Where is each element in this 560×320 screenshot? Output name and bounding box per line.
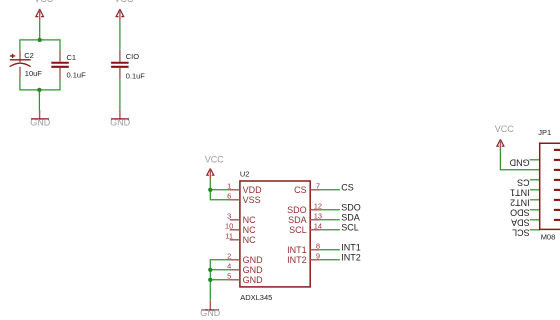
pin 7 CS <box>294 181 320 195</box>
svg-text:SCL: SCL <box>289 225 307 235</box>
wire CIO to ground <box>119 79 121 110</box>
junction VDD <box>208 188 212 192</box>
wire net INT2 <box>319 253 360 263</box>
junction GND pin4 <box>208 268 212 272</box>
pin 3 NC <box>227 211 256 225</box>
svg-text:CS: CS <box>517 178 530 188</box>
svg-text:2: 2 <box>227 251 231 260</box>
power VCC supply 1 (top-left) <box>34 0 54 20</box>
pin 14 SCL <box>289 221 322 235</box>
wire to ground <box>38 90 40 110</box>
power VCC supply 2 (CIO) <box>114 0 134 20</box>
capacitor CIO 0.1uF <box>111 50 145 81</box>
svg-text:INT2: INT2 <box>341 253 361 263</box>
wire net CS <box>319 183 353 193</box>
svg-text:INT2: INT2 <box>510 198 530 208</box>
pin 11 NC <box>225 231 256 245</box>
svg-text:GND: GND <box>243 265 264 275</box>
svg-text:CS: CS <box>341 183 354 193</box>
svg-text:14: 14 <box>314 221 322 230</box>
wire net SDA to JP1 <box>511 218 540 228</box>
ground GND 3 (U2) <box>200 300 221 318</box>
wire VCC to JP1 <box>500 150 539 170</box>
pin 1 VDD <box>227 181 262 195</box>
svg-text:13: 13 <box>314 211 322 220</box>
svg-text:SDO: SDO <box>341 203 361 213</box>
svg-text:3: 3 <box>227 211 231 220</box>
wire net SCL to JP1 <box>512 228 540 238</box>
junction bottom rail <box>37 88 41 92</box>
IC U2 ADXL345 body <box>240 170 310 303</box>
svg-text:ADXL345: ADXL345 <box>240 293 272 302</box>
svg-text:SCL: SCL <box>341 223 359 233</box>
ground GND 2 (CIO) <box>110 110 131 128</box>
pin 8 INT1 <box>287 241 320 255</box>
svg-text:SCL: SCL <box>512 228 530 238</box>
svg-text:VSS: VSS <box>243 195 261 205</box>
svg-text:GND: GND <box>243 275 264 285</box>
svg-text:12: 12 <box>314 201 322 210</box>
svg-text:CIO: CIO <box>126 52 140 61</box>
wire net INT1 to JP1 <box>510 188 540 198</box>
pin 13 SDA <box>288 211 322 225</box>
ground GND 1 <box>30 110 51 128</box>
svg-text:SDO: SDO <box>287 205 307 215</box>
svg-text:NC: NC <box>243 215 256 225</box>
svg-text:VCC: VCC <box>114 0 134 4</box>
svg-text:VDD: VDD <box>243 185 263 195</box>
svg-text:INT1: INT1 <box>341 243 361 253</box>
svg-text:4: 4 <box>227 261 231 270</box>
svg-text:SDA: SDA <box>288 215 307 225</box>
svg-text:10uF: 10uF <box>25 69 43 78</box>
svg-text:C2: C2 <box>24 51 34 60</box>
power VCC supply 3 (U2) <box>205 155 225 180</box>
svg-text:VCC: VCC <box>495 124 515 134</box>
junction top rail <box>38 38 42 42</box>
junction GND pin5 <box>208 278 212 282</box>
wire net SCL <box>319 223 358 233</box>
svg-text:SDO: SDO <box>510 208 530 218</box>
wire GND bus of U2 <box>210 260 230 301</box>
svg-text:0.1uF: 0.1uF <box>67 71 87 80</box>
wire net CS to JP1 <box>517 178 540 188</box>
svg-text:GND: GND <box>509 158 530 168</box>
pin 12 SDO <box>287 201 322 215</box>
wire net INT2 to JP1 <box>510 198 540 208</box>
svg-text:10: 10 <box>225 221 233 230</box>
power VCC supply 4 (JP1) <box>495 124 515 150</box>
svg-text:1: 1 <box>227 181 231 190</box>
wire net SDO to JP1 <box>510 208 540 218</box>
svg-text:INT1: INT1 <box>510 188 530 198</box>
svg-text:7: 7 <box>316 181 320 190</box>
wire net SDA <box>319 213 359 223</box>
svg-text:M08: M08 <box>541 233 556 242</box>
pin 9 INT2 <box>287 251 320 265</box>
svg-text:INT2: INT2 <box>287 255 307 265</box>
pin 6 VSS <box>227 191 261 205</box>
svg-text:NC: NC <box>243 225 256 235</box>
svg-text:GND: GND <box>110 118 131 128</box>
wire bottom rail <box>20 78 60 90</box>
svg-text:9: 9 <box>316 251 320 260</box>
svg-text:5: 5 <box>227 271 231 280</box>
pin contact marks JP1 <box>554 150 560 220</box>
capacitor C2 10uF polarized <box>10 50 43 78</box>
svg-text:SDA: SDA <box>511 218 530 228</box>
wire VCC to U2 VDD/VSS <box>210 179 230 200</box>
svg-text:GND: GND <box>200 308 221 318</box>
svg-text:VCC: VCC <box>34 0 54 4</box>
pin 2 GND <box>227 251 263 265</box>
wire VCC rail top <box>20 20 60 50</box>
svg-text:GND: GND <box>30 118 51 128</box>
wire net GND stub to JP1 <box>509 158 540 168</box>
connector JP1 M08 body <box>538 128 560 241</box>
pin 5 GND <box>227 271 263 285</box>
svg-text:VCC: VCC <box>205 155 225 165</box>
svg-text:6: 6 <box>227 191 231 200</box>
svg-text:U2: U2 <box>240 170 250 179</box>
wire VCC to CIO <box>119 20 121 50</box>
svg-text:NC: NC <box>243 235 256 245</box>
wire net SDO <box>319 203 360 213</box>
capacitor C1 0.1uF <box>51 51 86 80</box>
svg-text:C1: C1 <box>67 53 77 62</box>
svg-text:11: 11 <box>225 231 233 240</box>
svg-text:GND: GND <box>243 255 264 265</box>
pin 4 GND <box>227 261 263 275</box>
pin 10 NC <box>225 221 256 235</box>
svg-text:CS: CS <box>294 185 307 195</box>
svg-text:JP1: JP1 <box>538 128 551 137</box>
svg-text:8: 8 <box>316 241 320 250</box>
wire net INT1 <box>319 243 360 253</box>
svg-text:INT1: INT1 <box>287 245 307 255</box>
svg-text:SDA: SDA <box>341 213 360 223</box>
svg-text:0.1uF: 0.1uF <box>126 72 146 81</box>
